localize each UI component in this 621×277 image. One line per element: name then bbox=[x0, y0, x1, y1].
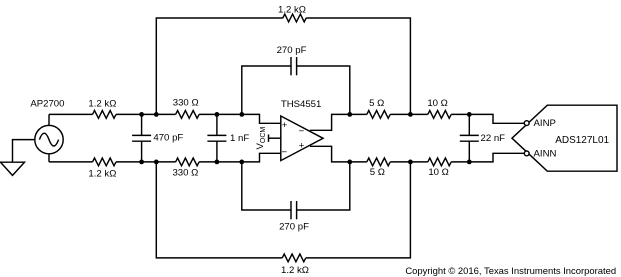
svg-text:ADS127L01: ADS127L01 bbox=[555, 135, 609, 146]
svg-text:330 Ω: 330 Ω bbox=[173, 97, 199, 108]
svg-text:+: + bbox=[282, 120, 288, 131]
svg-text:THS4551: THS4551 bbox=[281, 99, 322, 110]
svg-text:10 Ω: 10 Ω bbox=[427, 98, 448, 109]
svg-text:1.2 kΩ: 1.2 kΩ bbox=[88, 168, 116, 179]
svg-text:10 Ω: 10 Ω bbox=[428, 167, 449, 178]
svg-text:−: − bbox=[299, 126, 305, 137]
svg-text:AINN: AINN bbox=[534, 149, 557, 160]
svg-text:1.2 kΩ: 1.2 kΩ bbox=[88, 98, 116, 109]
svg-text:270 pF: 270 pF bbox=[277, 45, 307, 56]
svg-text:Copyright © 2016, Texas Instru: Copyright © 2016, Texas Instruments Inco… bbox=[405, 266, 616, 277]
svg-text:22 nF: 22 nF bbox=[481, 133, 506, 144]
svg-text:5 Ω: 5 Ω bbox=[369, 98, 384, 109]
svg-text:1.2 kΩ: 1.2 kΩ bbox=[281, 265, 309, 276]
svg-text:AINP: AINP bbox=[534, 118, 556, 129]
svg-text:1 nF: 1 nF bbox=[230, 133, 249, 144]
svg-text:5 Ω: 5 Ω bbox=[370, 167, 385, 178]
svg-text:270 pF: 270 pF bbox=[279, 221, 309, 232]
svg-text:1.2 kΩ: 1.2 kΩ bbox=[278, 5, 306, 16]
svg-text:AP2700: AP2700 bbox=[30, 98, 64, 109]
svg-text:+: + bbox=[299, 141, 305, 152]
svg-text:−: − bbox=[281, 147, 287, 158]
svg-text:330 Ω: 330 Ω bbox=[172, 168, 198, 179]
svg-text:470 pF: 470 pF bbox=[153, 133, 183, 144]
